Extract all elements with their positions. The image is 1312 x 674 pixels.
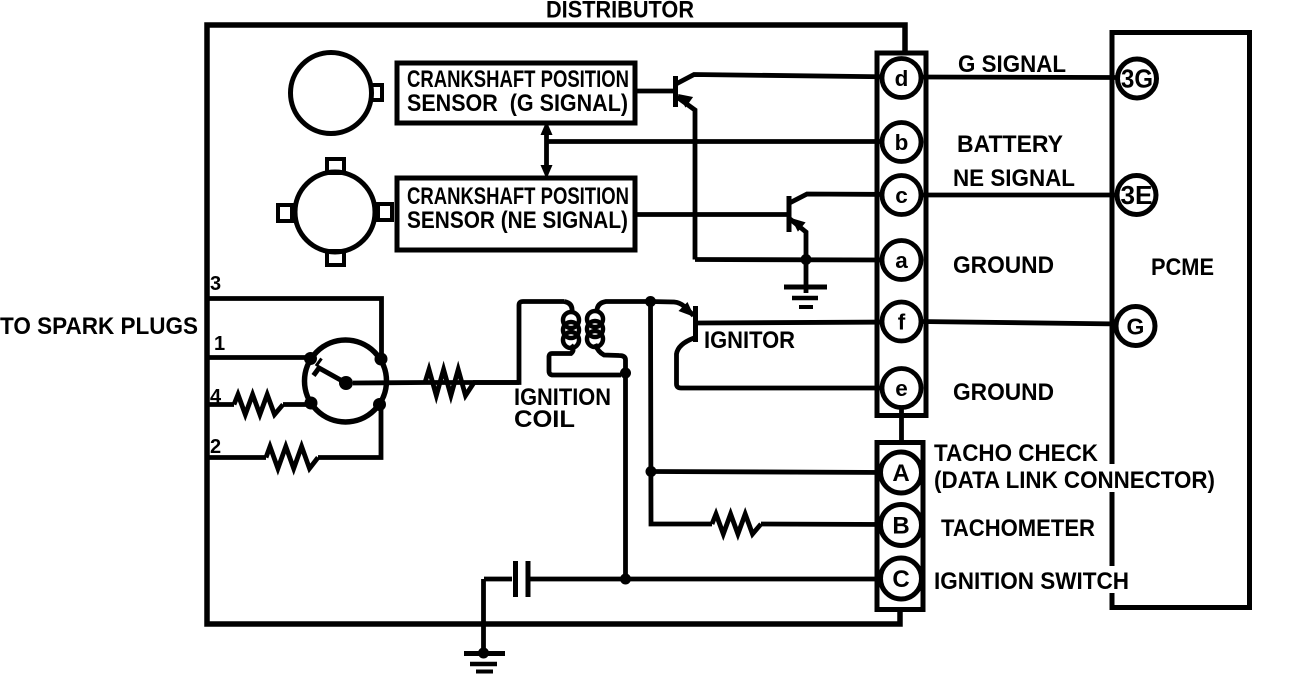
wire spark plug 3	[207, 299, 382, 359]
ignition coil secondary winding	[587, 302, 648, 374]
double-headed arrow between sensors	[541, 121, 553, 179]
svg-text:2: 2	[210, 436, 221, 458]
svg-text:1: 1	[214, 333, 225, 355]
svg-text:SENSOR (NE SIGNAL): SENSOR (NE SIGNAL)	[407, 207, 628, 234]
wire resistor to coil primary	[473, 380, 519, 385]
svg-text:e: e	[895, 376, 908, 401]
svg-text:c: c	[895, 183, 908, 208]
svg-text:3G: 3G	[1121, 64, 1153, 94]
pin B	[881, 505, 922, 546]
wire coil to capacitor vertical	[623, 373, 628, 579]
wire spark plug 4 lead	[207, 402, 234, 407]
resistor plug 4	[234, 395, 283, 415]
svg-text:SENSOR (G SIGNAL): SENSOR (G SIGNAL)	[407, 90, 628, 117]
connector block A-C	[877, 443, 923, 610]
ground under capacitor	[464, 579, 505, 672]
svg-text:GROUND: GROUND	[953, 379, 1054, 406]
resistor plug 2	[266, 447, 318, 469]
svg-text:TACHOMETER: TACHOMETER	[941, 515, 1095, 542]
wire c to 3E (NE signal)	[920, 193, 1116, 198]
node junction coil bottoms	[620, 368, 631, 379]
wire plug 4 to rotor contact	[283, 402, 306, 407]
svg-text:a: a	[895, 248, 908, 273]
wire d to 3G (G signal)	[920, 75, 1117, 80]
svg-text:G: G	[1127, 314, 1145, 340]
resistor tachometer row B	[712, 514, 761, 534]
svg-text:NE SIGNAL: NE SIGNAL	[953, 165, 1075, 192]
rotor NE-signal plate (circle with four tabs)	[278, 159, 392, 265]
crankshaft position sensor (G signal) box	[397, 63, 635, 123]
node junction coil secondary top	[645, 296, 656, 307]
rotor G-signal plate (circle with right tab)	[291, 53, 383, 134]
wire A row	[651, 472, 899, 473]
svg-text:DISTRIBUTOR: DISTRIBUTOR	[546, 0, 694, 24]
wire plug 2 to rotor contact	[318, 405, 381, 458]
wire e to A link	[899, 406, 904, 444]
wire a row (ground)	[695, 257, 899, 262]
distributor rotor cap	[304, 340, 388, 422]
pin a	[882, 241, 921, 280]
PCME box	[1112, 33, 1250, 608]
svg-text:IGNITION SWITCH: IGNITION SWITCH	[934, 568, 1129, 595]
pin 3G	[1118, 59, 1157, 98]
pin 3E	[1117, 176, 1156, 215]
svg-text:f: f	[898, 310, 906, 335]
svg-text:3E: 3E	[1121, 180, 1153, 210]
pin A	[881, 452, 922, 493]
svg-text:G SIGNAL: G SIGNAL	[958, 51, 1066, 78]
svg-text:GROUND: GROUND	[953, 252, 1054, 279]
node junction Q2 emitter	[801, 254, 812, 265]
wire spark plug 1	[207, 355, 306, 360]
svg-text:d: d	[895, 66, 909, 91]
svg-text:COIL: COIL	[514, 406, 575, 433]
capacitor condenser	[484, 561, 899, 597]
transistor Q2 (NE signal pickup)	[637, 194, 899, 260]
wire b row (battery)	[547, 139, 900, 144]
pin e	[882, 369, 921, 408]
pin d	[882, 59, 921, 98]
wire resistor to pin B	[761, 522, 899, 527]
svg-text:(DATA LINK CONNECTOR): (DATA LINK CONNECTOR)	[934, 467, 1215, 494]
svg-text:A: A	[892, 460, 909, 487]
transistor Q1 (G signal pickup)	[636, 75, 899, 260]
svg-text:b: b	[895, 130, 909, 155]
transistor Q3 ignitor	[651, 302, 900, 389]
wire spark plug 2 lead	[207, 455, 266, 460]
pin C	[881, 558, 922, 599]
pin G	[1116, 307, 1155, 346]
svg-text:C: C	[892, 566, 909, 593]
ground under Q2	[784, 260, 827, 308]
label IGNITION SWITCH (white backed)	[930, 566, 1142, 593]
svg-text:3: 3	[210, 273, 221, 295]
label DATA LINK CONNECTOR (white backed)	[930, 464, 1218, 492]
connector block d-e	[877, 53, 926, 416]
svg-text:TACHO CHECK: TACHO CHECK	[934, 440, 1098, 467]
crankshaft position sensor (NE signal) box	[397, 178, 635, 250]
svg-text:4: 4	[210, 386, 222, 408]
node junction A row tap	[646, 466, 657, 477]
wire secondary-top down to A row	[651, 302, 713, 525]
svg-text:PCME: PCME	[1151, 254, 1214, 281]
pin c	[882, 176, 921, 215]
resistor rotor to coil	[425, 370, 474, 396]
wire rotor arm output	[353, 380, 425, 385]
pin f	[882, 302, 921, 341]
svg-text:TO SPARK PLUGS: TO SPARK PLUGS	[0, 313, 198, 340]
ignition coil primary winding	[425, 302, 621, 383]
svg-text:CRANKSHAFT POSITION: CRANKSHAFT POSITION	[407, 183, 629, 210]
distributor enclosure box	[207, 25, 905, 624]
wire f to G	[920, 322, 1122, 325]
svg-text:BATTERY: BATTERY	[957, 131, 1063, 158]
svg-text:CRANKSHAFT POSITION: CRANKSHAFT POSITION	[407, 66, 629, 93]
pin b	[882, 123, 921, 162]
svg-text:IGNITOR: IGNITOR	[704, 327, 795, 354]
svg-text:B: B	[892, 513, 909, 540]
node junction capacitor / C row	[620, 574, 631, 585]
